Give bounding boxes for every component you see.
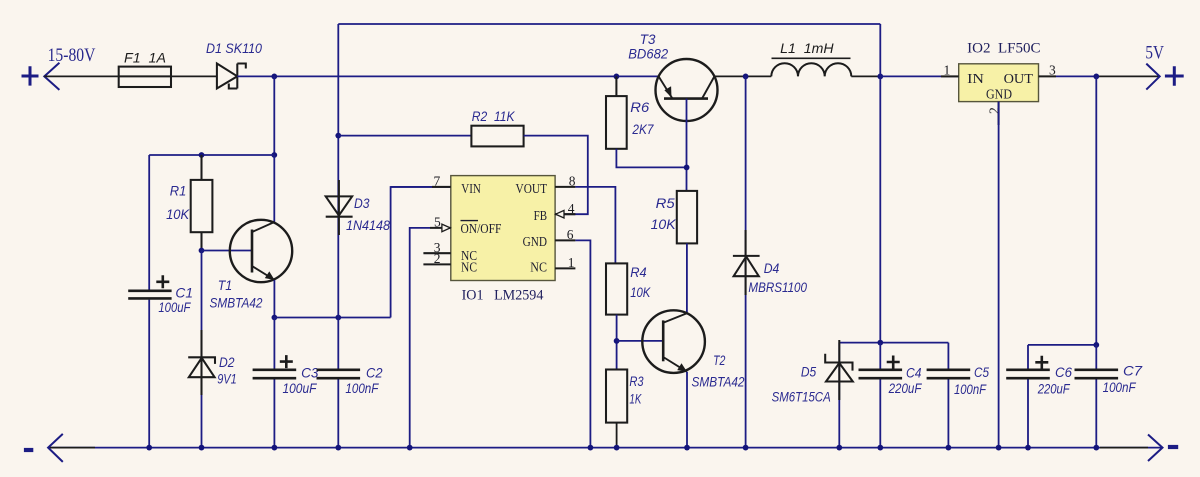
capacitor C2 100nF — [317, 370, 361, 378]
junction T1 emitter / C3 top — [272, 315, 278, 321]
svg-text:T2: T2 — [713, 353, 726, 368]
pin 3 NC stub — [423, 252, 450, 254]
resistor R6 2K7 — [606, 76, 627, 148]
junction R1 bottom / T1 base / D2 top — [199, 248, 205, 254]
junction ground rail C2 — [335, 445, 341, 451]
wire pin6 GND to ground rail — [575, 240, 590, 447]
wire fuse to D1 — [171, 75, 217, 77]
capacitor C1 100uF electrolytic — [148, 155, 150, 448]
wire D4 drop — [745, 76, 747, 447]
junction ground rail D5 — [836, 445, 842, 451]
svg-text:10K: 10K — [166, 207, 190, 222]
transistor T3 BD682 PNP — [656, 59, 718, 121]
wire pin5 ON/OFF to ground rail — [410, 228, 430, 448]
svg-text:2: 2 — [434, 251, 441, 266]
node + input terminal (15-80V plus) — [22, 66, 39, 85]
wire input arrow to fuse — [44, 75, 118, 77]
wire T2 base — [617, 340, 664, 342]
junction ground rail D2 — [199, 445, 205, 451]
svg-text:T3: T3 — [640, 32, 656, 47]
wire R4 bottom to R3 top — [616, 315, 618, 370]
junction ground rail C1 — [146, 445, 152, 451]
junction ground rail C5 — [946, 445, 952, 451]
node input arrow left — [44, 63, 59, 90]
junction R1 top y155 — [199, 152, 205, 158]
junction C7 top x1096 y344.9 — [1093, 342, 1099, 348]
svg-text:R2 11K: R2 11K — [472, 109, 516, 124]
svg-text:C3: C3 — [301, 366, 319, 381]
svg-text:220uF: 220uF — [1037, 382, 1070, 397]
svg-text:NC: NC — [461, 260, 477, 275]
pin 8 VOUT lead — [555, 186, 575, 188]
capacitor C3 100uF electrolytic — [273, 318, 275, 448]
TVS diode D5 SM6T15CA — [838, 343, 840, 448]
wire y155 from C1 to T1 collector line — [149, 154, 274, 156]
svg-text:100nF: 100nF — [345, 381, 379, 396]
wire x880 vertical (feedback top link down to C4 group) — [879, 24, 881, 343]
svg-text:FB: FB — [534, 209, 547, 224]
wire R2 right to FB pin4 — [524, 136, 588, 215]
capacitor C5 100nF — [947, 343, 949, 448]
junction C4 top x880 y342 — [877, 340, 883, 346]
wire x274 down to y155 — [273, 76, 275, 155]
svg-text:1: 1 — [944, 63, 951, 78]
capacitor C6 220uF electrolytic — [1027, 345, 1029, 448]
wire IO2 GND down to ground rail — [998, 102, 1000, 448]
junction ground rail T2 emitter — [684, 445, 690, 451]
wire R5 bottom to T2 collector — [686, 243, 688, 313]
node ground rail arrow right — [1148, 435, 1163, 462]
capacitor C7 100nF — [1095, 345, 1097, 448]
wire pin8 VOUT to R4 top — [575, 187, 615, 264]
pin 6 GND lead — [555, 239, 575, 241]
junction ground rail ON/OFF — [407, 445, 413, 451]
svg-text:100uF: 100uF — [158, 300, 191, 315]
svg-text:1: 1 — [568, 255, 575, 270]
svg-text:10K: 10K — [630, 285, 651, 300]
svg-text:R1: R1 — [170, 184, 187, 199]
svg-text:IO2 LF50C: IO2 LF50C — [967, 41, 1041, 57]
svg-text:R6: R6 — [630, 100, 649, 115]
svg-text:C4: C4 — [906, 366, 922, 381]
pin 4 FB lead with input arrow — [555, 213, 575, 215]
wire T2 emitter to ground rail — [686, 372, 688, 448]
svg-text:MBRS1100: MBRS1100 — [748, 280, 807, 295]
svg-text:8: 8 — [569, 174, 576, 189]
junction ground rail IO1 GND — [588, 445, 594, 451]
wire T3 base down to junction — [686, 99, 688, 191]
svg-text:VIN: VIN — [461, 182, 481, 197]
junction T3 base / R6 / R5 — [684, 165, 690, 171]
pin 1 IN lead and number — [941, 75, 959, 77]
svg-text:15-80V: 15-80V — [48, 45, 96, 66]
wire T1 base — [202, 250, 253, 252]
svg-text:5: 5 — [434, 215, 441, 230]
pin 7 VIN lead — [432, 186, 451, 188]
pin 1 NC stub — [555, 267, 575, 269]
regulator IC IO2 LF50C body — [959, 64, 1039, 102]
svg-text:100nF: 100nF — [954, 382, 987, 397]
wire R3 bottom to ground rail — [616, 423, 618, 448]
wire D1 to T3 emitter (top rail) — [237, 75, 658, 77]
svg-text:SMBTA42: SMBTA42 — [692, 375, 745, 390]
svg-text:6: 6 — [567, 227, 574, 242]
node minus terminal right — [1168, 445, 1178, 449]
junction R4/R3/T2 base — [614, 338, 620, 344]
svg-text:BD682: BD682 — [628, 47, 668, 62]
junction y317 x338 (C2/D3) — [335, 315, 341, 321]
svg-text:C2: C2 — [366, 366, 383, 381]
svg-text:R4: R4 — [630, 265, 646, 280]
svg-text:C1: C1 — [175, 286, 193, 301]
svg-text:F1 1A: F1 1A — [124, 51, 166, 66]
junction output x1096 top rail — [1093, 74, 1099, 80]
junction x274 y155 — [271, 152, 277, 158]
svg-text:2K7: 2K7 — [632, 122, 654, 137]
svg-text:GND: GND — [986, 88, 1012, 103]
svg-text:D2: D2 — [219, 355, 235, 370]
svg-text:C7: C7 — [1123, 364, 1143, 379]
wire ground rail — [48, 447, 1162, 449]
svg-text:SMBTA42: SMBTA42 — [210, 296, 263, 311]
diode D4 MBRS1100 — [733, 230, 760, 295]
svg-text:L1 1mH: L1 1mH — [780, 41, 834, 56]
junction ground rail C3 — [272, 445, 278, 451]
transistor T1 SMBTA42 NPN — [230, 220, 292, 282]
resistor R5 10K — [677, 191, 697, 244]
junction ground rail C7 — [1093, 445, 1099, 451]
node minus terminal left — [24, 448, 33, 452]
svg-text:C5: C5 — [974, 365, 989, 380]
svg-text:VOUT: VOUT — [516, 182, 548, 197]
svg-text:220uF: 220uF — [888, 381, 922, 396]
svg-text:100uF: 100uF — [283, 381, 318, 396]
node ground rail arrow left — [48, 434, 63, 462]
wire pin7 VIN link (drawn with riser above) — [391, 186, 432, 188]
node 5V output arrow — [1146, 64, 1159, 90]
diode D1 Schottky SK110 — [217, 64, 246, 89]
wire R6 bottom to base node — [616, 149, 686, 168]
svg-text:GND: GND — [523, 235, 547, 250]
inductor L1 1mH — [771, 63, 880, 76]
svg-text:IO1 LM2594: IO1 LM2594 — [462, 288, 545, 304]
wire D5/C4/C5 top link y342 — [839, 342, 948, 344]
junction top rail x274 — [271, 74, 277, 80]
junction x338 y135 (R2 left) — [335, 133, 341, 139]
wire x1096 down to C6/C7 group — [1095, 76, 1097, 345]
svg-text:NC: NC — [530, 260, 547, 275]
svg-text:D5: D5 — [801, 365, 817, 380]
svg-text:R3: R3 — [629, 374, 644, 389]
pin 2 GND lead and number (rotated) — [998, 102, 1000, 125]
wire top feedback line y24 — [338, 23, 880, 25]
transistor T2 SMBTA42 NPN — [642, 310, 705, 373]
wire T1 emitter down — [273, 280, 275, 318]
svg-text:D3: D3 — [354, 196, 370, 211]
svg-text:9V1: 9V1 — [217, 372, 237, 387]
capacitor C4 220uF electrolytic — [879, 343, 881, 448]
wire VIN riser x390 — [391, 187, 451, 318]
wire x880 rail to IO2 IN — [880, 75, 958, 77]
svg-text:1K: 1K — [629, 392, 642, 407]
svg-text:D4: D4 — [764, 261, 780, 276]
svg-text:10K: 10K — [651, 217, 677, 232]
svg-text:4: 4 — [568, 201, 575, 216]
fuse F1 — [119, 67, 171, 87]
diode D3 1N4148 — [326, 180, 353, 235]
svg-text:100nF: 100nF — [1103, 380, 1137, 395]
svg-text:D1 SK110: D1 SK110 — [206, 41, 262, 56]
junction switch node x745 — [743, 74, 749, 80]
svg-text:ON/OFF: ON/OFF — [461, 222, 502, 237]
pin 3 OUT lead and number — [1039, 75, 1057, 77]
junction ground rail D4 — [743, 445, 749, 451]
wire T3 collector to L1 — [714, 75, 771, 77]
svg-text:3: 3 — [1049, 63, 1056, 78]
svg-text:SM6T15CA: SM6T15CA — [772, 390, 831, 405]
resistor R4 10K — [606, 263, 627, 314]
svg-text:5V: 5V — [1145, 43, 1164, 64]
wire C6/C7 top link y344.9 — [1028, 344, 1096, 346]
resistor R2 11K — [471, 126, 523, 147]
junction output node x880 top rail — [877, 74, 883, 80]
wire R2 left — [338, 135, 471, 137]
svg-text:R5: R5 — [656, 196, 676, 211]
junction ground rail C6 — [1025, 445, 1031, 451]
svg-text:1N4148: 1N4148 — [346, 218, 390, 233]
node + output terminal plus — [1165, 66, 1184, 85]
svg-text:T1: T1 — [218, 278, 233, 293]
svg-text:OUT: OUT — [1004, 72, 1034, 87]
wire D2 drop — [201, 251, 203, 448]
junction ground rail IO2 GND — [996, 445, 1002, 451]
resistor R1 10K — [191, 155, 213, 251]
svg-text:7: 7 — [434, 174, 441, 189]
junction top rail R6 top x616 — [614, 74, 620, 80]
wire IO2 OUT to 5V terminal — [1056, 75, 1096, 77]
resistor R3 1K — [606, 370, 627, 423]
pin 5 ON/OFF lead with input arrow — [430, 227, 451, 229]
wire x274 y155 down to T1 collector — [273, 155, 275, 223]
wire/net x338 vertical (top link to R2, D3, C2) — [337, 24, 339, 448]
zener diode D2 9V1 — [188, 330, 215, 395]
svg-text:C6: C6 — [1055, 365, 1072, 380]
pin 2 NC stub — [423, 263, 450, 265]
junction ground rail C4 — [877, 445, 883, 451]
wire y317 T1 emitter to VIN riser — [274, 317, 390, 319]
junction ground rail R3 — [614, 445, 620, 451]
op-amp/regulator IC IO1 LM2594 body — [451, 176, 555, 281]
svg-text:IN: IN — [967, 72, 984, 87]
